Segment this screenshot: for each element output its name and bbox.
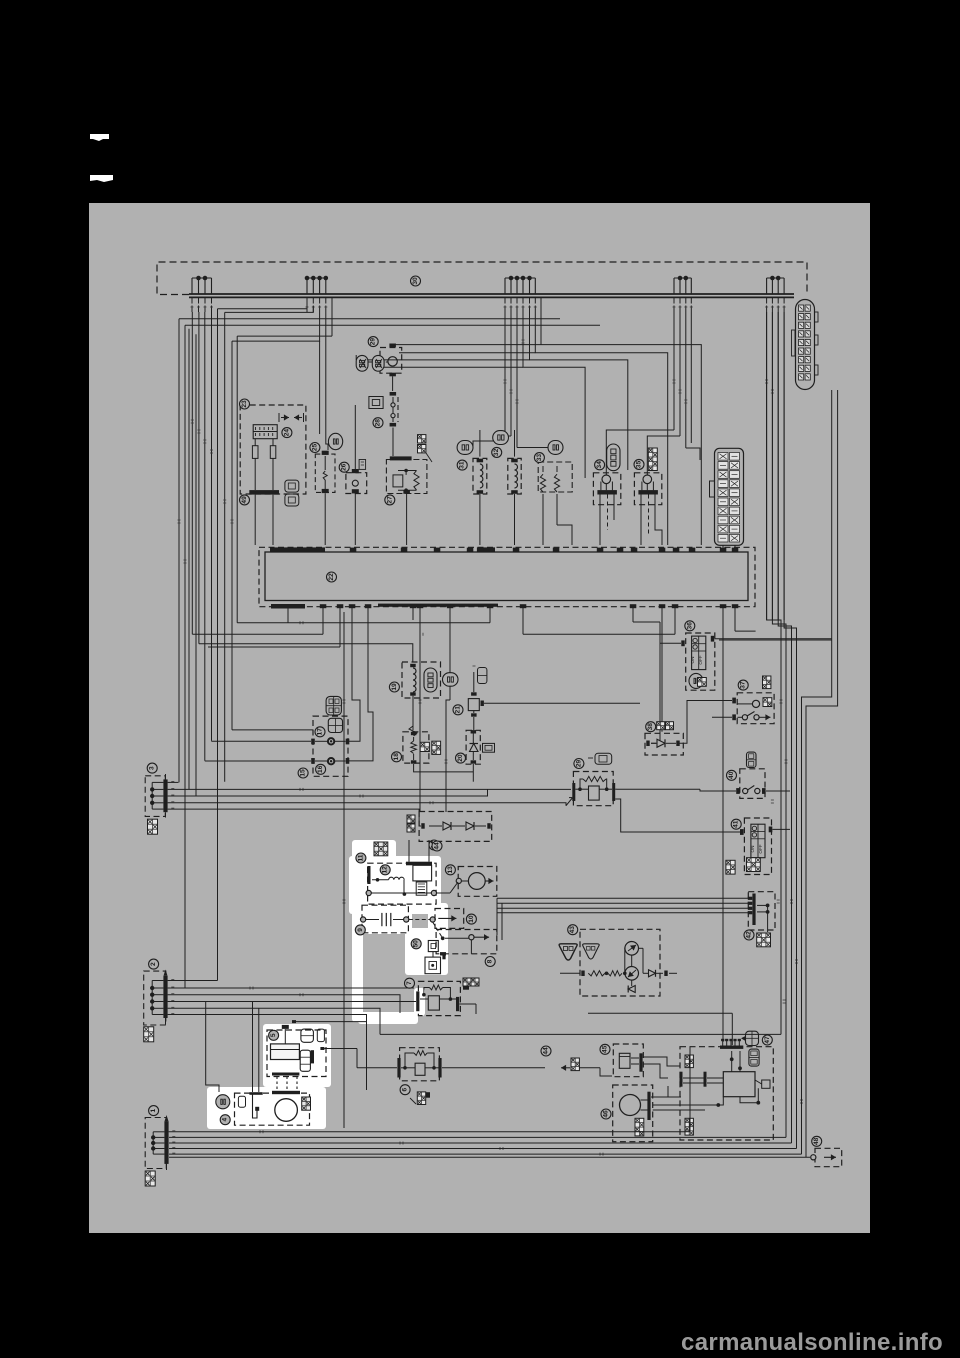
circle 29 [368, 337, 378, 347]
connector 6 tail [410, 1092, 430, 1105]
diode unit 38 [645, 722, 683, 755]
fuse 29 [588, 753, 612, 764]
diode 20 [466, 730, 480, 782]
circle 14 [429, 840, 439, 850]
connector 1 plug [145, 1171, 155, 1186]
svg-text:4: 4 [222, 1118, 229, 1122]
indicator switch 37 [732, 676, 774, 724]
svg-text:11: 11 [357, 854, 364, 861]
wire switch down [392, 376, 394, 391]
svg-text:44: 44 [543, 1047, 550, 1055]
horn 2 [205, 758, 350, 764]
circle 12 [380, 865, 390, 875]
circle 50 [411, 939, 421, 949]
wire stator to box [254, 495, 256, 545]
circle 4 [220, 1115, 230, 1125]
horn connector (B) [326, 696, 341, 715]
neutral switch 50 [425, 922, 446, 974]
circle 34 [595, 460, 605, 470]
circle 13 [445, 865, 455, 875]
circle 17 [315, 727, 325, 737]
sensor 8 [440, 934, 489, 955]
svg-text:1: 1 [150, 1108, 157, 1112]
ignition coil 14 [406, 840, 432, 895]
bus tap group 4 [674, 276, 691, 294]
horn connector inner [328, 718, 342, 732]
bus tap group 1 [192, 276, 212, 294]
pump control unit [653, 1031, 770, 1135]
svg-text:19: 19 [391, 683, 398, 691]
svg-text:20: 20 [457, 754, 464, 762]
connector 19 oval [443, 673, 459, 687]
ignition switch 29 [356, 344, 402, 377]
accessory lead 48 [811, 1148, 842, 1166]
circle 44 [432, 841, 442, 851]
circle 46 [601, 1109, 611, 1119]
svg-text:21: 21 [455, 706, 462, 714]
rectifier regulator 23 enclosure [240, 405, 306, 494]
group 4 drops [606, 312, 700, 475]
flasher relay 43 [560, 942, 677, 993]
lead to accessory 48 [169, 1047, 810, 1158]
svg-text:24: 24 [283, 429, 290, 437]
circle 18 [392, 752, 402, 762]
wire group 5 drop to connector A [767, 312, 785, 620]
connector 2 leads [168, 981, 416, 1093]
svg-text:34: 34 [596, 461, 603, 469]
fuel pump 46 [620, 1092, 651, 1136]
fuel sender 45 frame [613, 1044, 643, 1077]
svg-text:27: 27 [386, 496, 393, 504]
circle 20 [456, 753, 466, 763]
sensor 8 frame [436, 930, 497, 954]
bus label circle 30 [411, 276, 421, 286]
fuse pair 23 [252, 439, 275, 490]
bus feeder turns [179, 297, 600, 450]
circle 16 [316, 764, 326, 774]
svg-text:OFF: OFF [698, 655, 703, 664]
main fuse 25 [315, 451, 335, 545]
junction block 22 dashed frame [259, 547, 755, 606]
circle 43 [568, 925, 578, 935]
sidestand switch 41 [726, 818, 790, 875]
relay 21 [468, 666, 640, 730]
svg-text:32: 32 [493, 448, 500, 456]
svg-text:ON: ON [690, 657, 695, 664]
bottom long leads [380, 1013, 781, 1045]
left connector 2 [144, 970, 175, 1026]
circle 26 [339, 462, 349, 472]
connector 42 plug [757, 933, 771, 947]
regulator arrows 24 [279, 413, 304, 422]
starter relay 5 [271, 1020, 367, 1071]
svg-text:29: 29 [370, 338, 377, 346]
cluster 5 frame [267, 1030, 326, 1077]
relay 6 [357, 1051, 545, 1078]
relay 7 frame [418, 981, 460, 1015]
svg-text:46: 46 [603, 1110, 610, 1118]
flasher feed [354, 405, 356, 469]
switch 37 feeds [680, 701, 733, 744]
circle 42 [744, 930, 754, 940]
spark plug 13 [436, 873, 494, 893]
circle 47 [762, 1035, 772, 1045]
pickup 10 [438, 917, 456, 919]
relay assembly 29 [566, 772, 740, 833]
horn 1 [212, 738, 350, 744]
resistor unit 18 [403, 698, 473, 772]
junction block 22 [265, 552, 748, 601]
svg-text:41: 41 [733, 820, 740, 828]
connector 3 plug [148, 819, 158, 834]
connector 3 leads [168, 782, 571, 826]
wire drops below bus [191, 297, 786, 312]
harness runs below junction block [192, 608, 755, 1128]
circle 9 [355, 925, 365, 935]
connector 2 plug [144, 1027, 154, 1042]
connector pair 27b [418, 435, 433, 462]
svg-text:33: 33 [536, 454, 543, 462]
svg-text:44: 44 [434, 842, 441, 850]
svg-text:13: 13 [447, 866, 454, 874]
circle 40 [727, 770, 737, 780]
svg-text:47: 47 [764, 1036, 771, 1044]
circle 21 [453, 705, 463, 715]
svg-text:40: 40 [728, 771, 735, 779]
svg-text:8: 8 [487, 959, 494, 963]
svg-text:7: 7 [406, 981, 413, 985]
circle 15 [298, 768, 308, 778]
circle 29b [574, 759, 584, 769]
clutch switch 40 [736, 752, 790, 798]
svg-text:17: 17 [317, 728, 324, 736]
circle 8 [485, 957, 495, 967]
right side drop bundle [719, 312, 838, 1157]
circle 7 [405, 978, 415, 988]
switch 40 feed [617, 788, 700, 790]
circle 3 [147, 763, 157, 773]
relay 6 frame [400, 1048, 440, 1081]
rectifier 24 block [253, 425, 277, 439]
starter motor 4 [216, 1002, 311, 1121]
connector 7 tail [459, 978, 479, 1014]
junction block bottom pins [271, 604, 738, 609]
svg-text:42: 42 [746, 931, 753, 939]
svg-text:9: 9 [357, 928, 364, 932]
meter lamp 34 [593, 444, 620, 545]
svg-text:16: 16 [317, 765, 324, 773]
fuel pump 46 frame [613, 1085, 653, 1142]
circle 10 [466, 914, 476, 924]
diode assembly 44 [407, 812, 492, 842]
spark plug 13 frame [458, 867, 497, 897]
starter motor 4 frame [235, 1093, 310, 1125]
label plate main fuse [369, 397, 383, 409]
main connector (A) [792, 300, 819, 390]
pickup feed [199, 644, 413, 662]
starter brushes [272, 1073, 299, 1092]
circle 48 [812, 1136, 822, 1146]
svg-text:18: 18 [393, 753, 400, 761]
svg-text:48: 48 [813, 1137, 820, 1145]
svg-text:OFF: OFF [758, 844, 763, 853]
circle 22 [327, 572, 337, 582]
circle 2 [149, 959, 159, 969]
circle 49 [240, 495, 250, 505]
bus tap group 2 [305, 276, 328, 294]
svg-text:31: 31 [459, 461, 466, 469]
connector block 42 [748, 892, 775, 932]
svg-text:29: 29 [575, 760, 582, 768]
label 20 [483, 743, 495, 752]
left connector 3 [145, 774, 174, 818]
circle 33 [534, 453, 544, 463]
circle 37 [738, 680, 748, 690]
ignition unit 11 frame [368, 863, 437, 904]
svg-text:36: 36 [686, 622, 693, 630]
circle 31 [457, 460, 467, 470]
svg-text:10: 10 [468, 915, 475, 923]
circle 36 [685, 621, 695, 631]
condenser 9 [361, 913, 436, 926]
pickup 10 frame [435, 909, 464, 929]
pump control 47 frame [680, 1047, 773, 1140]
handlebar switch 27 [386, 456, 427, 545]
circle 24 [282, 428, 292, 438]
svg-text:50: 50 [413, 940, 420, 948]
highlight backdrop [207, 840, 448, 1129]
turn connector L [559, 944, 599, 960]
svg-text:43: 43 [569, 926, 576, 934]
fuel link wires [643, 1057, 680, 1097]
bus tap group 3 [505, 276, 535, 294]
condenser 9 frame [362, 905, 408, 933]
main fuse 28 [390, 392, 398, 456]
junction block top pins [270, 547, 738, 552]
connector 14 plug [374, 842, 388, 856]
flasher relay 43 frame [580, 929, 660, 996]
svg-text:25: 25 [311, 444, 318, 452]
svg-text:2: 2 [150, 962, 157, 966]
connector oval (Gy) 25 [328, 433, 342, 449]
svg-text:37: 37 [740, 681, 747, 689]
svg-text:6: 6 [402, 1088, 409, 1092]
meter lamp 35 [634, 448, 662, 545]
circle 11 [356, 853, 366, 863]
svg-text:3: 3 [149, 766, 156, 770]
flasher relay 26 [346, 460, 367, 546]
svg-text:38: 38 [647, 723, 654, 731]
svg-text:5: 5 [270, 1033, 277, 1037]
svg-text:30: 30 [412, 277, 419, 285]
circle 41 [731, 819, 741, 829]
horn cluster frame [313, 716, 348, 776]
circle 38 [646, 722, 656, 732]
svg-text:12: 12 [382, 866, 389, 874]
svg-text:22: 22 [328, 573, 335, 581]
carb heater 31 [457, 430, 487, 545]
stator bar 23 [249, 490, 279, 495]
circle 45 [600, 1044, 610, 1054]
svg-text:15: 15 [300, 769, 307, 777]
svg-text:49: 49 [241, 496, 248, 504]
relay 7 [416, 985, 459, 1011]
circle 44b [541, 1046, 551, 1056]
svg-text:26: 26 [341, 463, 348, 471]
connector 49 [285, 480, 299, 506]
circle 25 [310, 443, 320, 453]
circle 1 [149, 1106, 159, 1116]
diagram panel [89, 203, 870, 1233]
meter connector (B) [710, 448, 744, 547]
carb heater 32 [493, 430, 522, 545]
circle 23 [240, 399, 250, 409]
left harness bundle [179, 309, 237, 988]
bundle stub turns [192, 634, 313, 730]
svg-text:23: 23 [241, 400, 248, 408]
page header mark 2 [90, 175, 113, 182]
pickup coil 19 [402, 662, 441, 730]
handlebar switch 36 [660, 633, 715, 690]
svg-text:35: 35 [636, 460, 643, 468]
circle 6 [400, 1085, 410, 1095]
diode lead 44b [561, 1058, 612, 1076]
circle 35 [634, 459, 644, 469]
left connector 1 [145, 1115, 175, 1170]
svg-text:ON: ON [750, 846, 755, 853]
fuel sender 45 [619, 1053, 642, 1071]
bus tap group 5 [767, 276, 785, 294]
circle 27 [385, 495, 395, 505]
svg-text:45: 45 [602, 1045, 609, 1053]
thermo switch 33 [538, 441, 572, 546]
connector pair 18 [420, 741, 440, 754]
ground bus dashed frame [157, 262, 807, 295]
switch 36 feed [715, 638, 832, 640]
connector 42 leads [497, 898, 748, 940]
right feeder drops [473, 297, 701, 545]
wire labels texture [178, 340, 804, 1156]
svg-text:28: 28 [375, 419, 382, 427]
ignition unit internals [366, 866, 436, 896]
circle 5 [269, 1030, 279, 1040]
circle 32 [492, 447, 502, 457]
circle 28 [373, 418, 383, 428]
main ground bus [189, 293, 794, 295]
circle 19 [389, 682, 399, 692]
page header mark 1 [90, 134, 109, 141]
